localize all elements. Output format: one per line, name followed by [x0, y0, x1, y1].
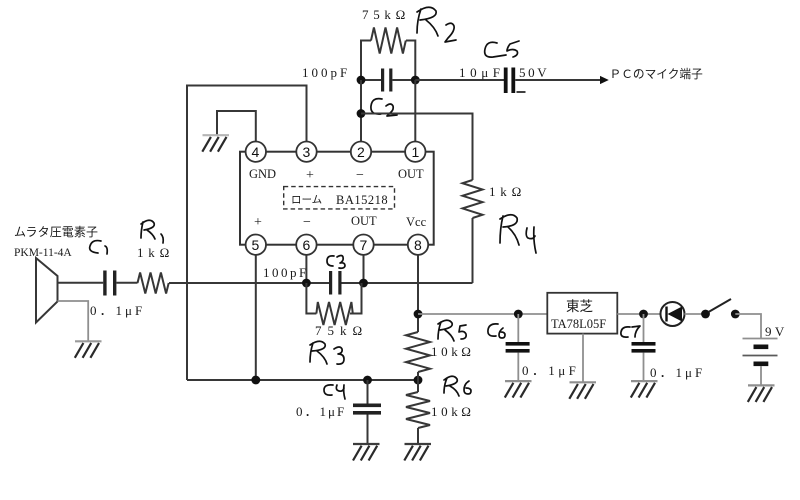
- wire: piezo bottom terminal to ground: [58, 301, 89, 341]
- svg-text:75kΩ: 75kΩ: [362, 7, 410, 22]
- wire: R6 to ground: [417, 428, 419, 444]
- svg-text:50V: 50V: [519, 65, 549, 80]
- svg-text:2: 2: [357, 144, 365, 160]
- svg-text:7: 7: [360, 237, 368, 253]
- svg-text:0．1μF: 0．1μF: [650, 365, 705, 380]
- svg-text:OUT: OUT: [351, 214, 377, 228]
- ground (C6): [505, 381, 532, 398]
- handwritten R4: [500, 215, 536, 253]
- node pin5/rail: [251, 376, 260, 385]
- wire: pin2 column: [360, 80, 362, 142]
- wire: regulator ground lead: [582, 334, 584, 383]
- wire: C2 left lead: [361, 79, 381, 81]
- svg-text:+: +: [254, 215, 262, 230]
- wire: arrow to PC mic: [515, 79, 601, 81]
- pin 4: [246, 142, 266, 162]
- wire: pin7 column: [363, 255, 365, 283]
- svg-text:1: 1: [412, 144, 420, 160]
- svg-text:GND: GND: [249, 167, 276, 181]
- handwritten C6: [488, 324, 505, 338]
- handwritten C2: [371, 99, 397, 116]
- capacitor C1 plates: [103, 271, 106, 296]
- resistor R5 10k: [406, 332, 430, 372]
- node R2/C2 left: [357, 76, 366, 85]
- node C6: [514, 310, 523, 319]
- capacitor C4: [367, 380, 369, 444]
- node R2/C2 right: [411, 76, 420, 85]
- wire: pin1 column: [414, 80, 416, 142]
- ground (piezo): [75, 341, 102, 358]
- capacitor C5 plates (electrolytic): [504, 68, 508, 94]
- capacitor C6: [517, 314, 519, 381]
- svg-text:10μF: 10μF: [459, 65, 505, 80]
- handwritten C7: [621, 326, 640, 337]
- wire: R4 down to pin7 line: [472, 218, 474, 283]
- dashed label box: [284, 187, 395, 209]
- wire: pin8 column down to power node: [417, 255, 419, 332]
- wire: switch to battery: [735, 314, 761, 339]
- wire: piezo top terminal: [58, 282, 104, 284]
- pin 6: [296, 235, 316, 255]
- ground (C7): [631, 381, 658, 398]
- node pin6 junction: [302, 279, 311, 288]
- ground (battery): [748, 385, 775, 402]
- svg-text:1kΩ: 1kΩ: [137, 245, 174, 260]
- capacitor C7: [643, 314, 645, 381]
- svg-text:TA78L05F: TA78L05F: [551, 317, 606, 331]
- svg-text:OUT: OUT: [398, 167, 424, 181]
- svg-text:10kΩ: 10kΩ: [431, 404, 475, 419]
- resistor R4 1k: [463, 180, 483, 218]
- pin 3: [296, 142, 316, 162]
- wire: C2 right lead: [392, 79, 415, 81]
- wire: regulator output to LED: [617, 313, 660, 315]
- wire: left bias rail with top run to pin3: [187, 86, 307, 381]
- svg-text:PKM-11-4A: PKM-11-4A: [14, 247, 72, 259]
- resistor R6 10k: [406, 392, 430, 428]
- wire: C3 to R4 corner (pin7 segment): [342, 282, 473, 284]
- svg-text:1kΩ: 1kΩ: [489, 184, 526, 199]
- svg-text:0．1μF: 0．1μF: [522, 363, 579, 378]
- svg-text:Vcc: Vcc: [406, 215, 427, 229]
- node pin7 junction: [359, 279, 368, 288]
- resistor R3 75k with loop leads: [306, 283, 361, 325]
- LED D1: [661, 302, 685, 326]
- handwritten C3: [327, 256, 345, 269]
- handwritten C4: [324, 385, 345, 399]
- resistor R2 75k with loop leads: [361, 28, 415, 81]
- wire: bottom bias rail: [187, 379, 418, 381]
- handwritten R5: [438, 320, 466, 341]
- ground (pin4): [202, 135, 229, 152]
- node C7: [639, 310, 648, 319]
- svg-text:−: −: [303, 215, 311, 230]
- wire: LED to switch: [685, 313, 706, 315]
- wire: pin5 column down to bias rail: [255, 255, 257, 380]
- node pin8 power: [414, 310, 423, 319]
- wire: C1 to R1: [116, 282, 137, 284]
- svg-text:0．1μF: 0．1μF: [296, 404, 346, 419]
- minus mark C5: [517, 91, 526, 93]
- resistor R1: [138, 273, 169, 294]
- svg-text:−: −: [356, 168, 364, 183]
- svg-text:+: +: [306, 168, 314, 183]
- pin 8: [408, 235, 428, 255]
- pin 2: [351, 142, 371, 162]
- svg-text:0．1μF: 0．1μF: [90, 303, 145, 318]
- op-amp IC BA15218 body: [240, 152, 434, 245]
- wire: pin4 to ground U-link: [217, 111, 256, 142]
- regulator TA78L05F box: [547, 293, 617, 334]
- capacitor C3 plates: [329, 271, 332, 295]
- svg-text:ムラタ圧電素子: ムラタ圧電素子: [14, 225, 98, 239]
- wire: R1 to C3 (input line crossing rail and pin5 column): [169, 282, 329, 284]
- wire: battery to ground: [760, 366, 762, 385]
- svg-text:ローム: ローム: [291, 194, 322, 206]
- node feedback tap: [357, 109, 366, 118]
- svg-text:100pF: 100pF: [263, 265, 309, 280]
- pin 7: [353, 235, 373, 255]
- ground (R6): [404, 444, 431, 461]
- node R5-R6 junction: [414, 376, 423, 385]
- svg-text:6: 6: [303, 237, 311, 253]
- svg-text:100pF: 100pF: [302, 65, 350, 80]
- svg-text:東芝: 東芝: [566, 299, 594, 314]
- handwritten R2: [417, 7, 456, 42]
- handwritten C1: [90, 241, 108, 254]
- svg-text:4: 4: [252, 144, 260, 160]
- battery 9V: [743, 339, 778, 367]
- svg-text:BA15218: BA15218: [336, 193, 388, 207]
- handwritten C5: [485, 41, 519, 57]
- svg-text:5: 5: [252, 237, 260, 253]
- switch SW1: [701, 310, 710, 319]
- svg-text:9V: 9V: [765, 324, 788, 339]
- svg-text:8: 8: [414, 237, 422, 253]
- wire: feedback line to R4: [361, 114, 473, 181]
- handwritten R3: [310, 341, 344, 364]
- handwritten R6: [444, 376, 471, 396]
- wire: output line pin1 to C5: [415, 79, 504, 81]
- wire: power rail from pin8 node to regulator: [418, 313, 547, 315]
- wire: pin6 column: [305, 255, 307, 283]
- capacitor C2 plates: [381, 69, 384, 92]
- node C4/rail: [363, 376, 372, 385]
- svg-text:10kΩ: 10kΩ: [431, 344, 475, 359]
- svg-text:75kΩ: 75kΩ: [315, 323, 368, 338]
- ground (regulator): [569, 382, 596, 399]
- handwritten R1: [141, 220, 163, 243]
- pin 5: [246, 235, 266, 255]
- svg-text:3: 3: [303, 144, 311, 160]
- ground (C4): [353, 444, 380, 461]
- wire: R5 to R6: [417, 372, 419, 392]
- piezo element PKM-11-4A: [36, 258, 58, 323]
- pin 1: [405, 142, 425, 162]
- svg-text:ＰＣのマイク端子: ＰＣのマイク端子: [610, 68, 704, 81]
